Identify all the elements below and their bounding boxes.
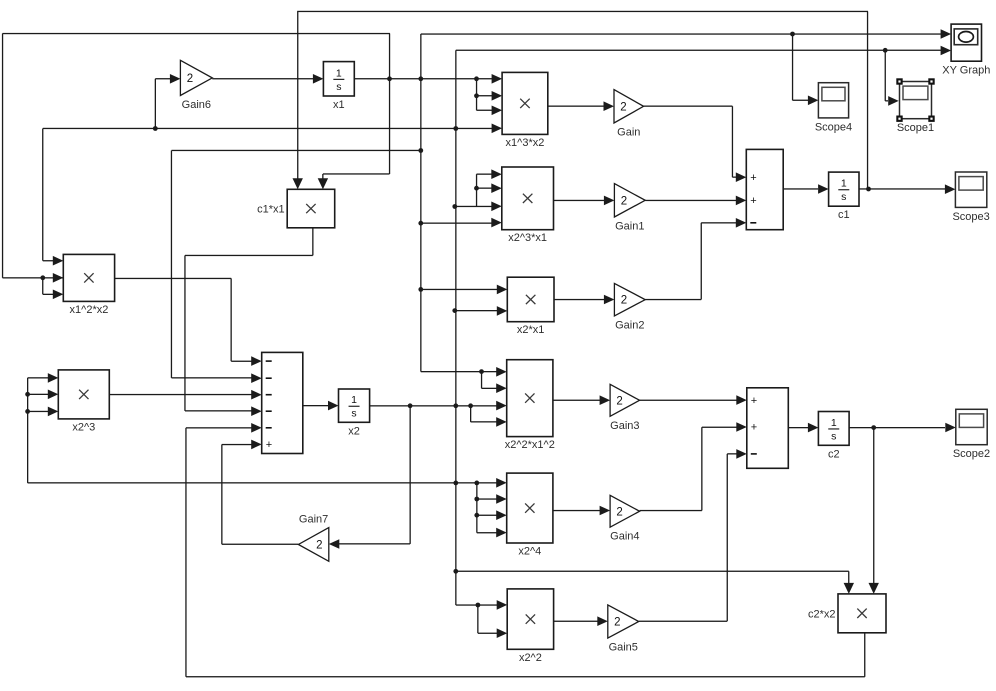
svg-text:Gain2: Gain2	[615, 319, 644, 331]
svg-text:s: s	[336, 81, 341, 93]
svg-text:Gain3: Gain3	[610, 420, 639, 432]
svg-text:2: 2	[187, 73, 193, 85]
svg-text:x2^2: x2^2	[519, 652, 542, 664]
svg-text:+: +	[750, 195, 756, 207]
svg-text:c2: c2	[828, 448, 840, 460]
svg-text:1: 1	[841, 178, 847, 190]
svg-text:x2*x1: x2*x1	[517, 324, 545, 336]
svg-text:x2: x2	[348, 425, 360, 437]
svg-text:s: s	[351, 408, 356, 420]
svg-text:x2^2*x1^2: x2^2*x1^2	[505, 439, 555, 451]
svg-text:Scope3: Scope3	[952, 211, 989, 223]
svg-text:2: 2	[621, 195, 627, 207]
svg-text:x2^3: x2^3	[72, 421, 95, 433]
svg-text:Scope4: Scope4	[815, 121, 852, 133]
svg-text:+: +	[266, 439, 272, 451]
svg-text:1: 1	[336, 67, 342, 79]
svg-text:c2*x2: c2*x2	[808, 608, 836, 620]
svg-text:Gain: Gain	[617, 127, 640, 139]
svg-text:XY Graph: XY Graph	[942, 65, 990, 77]
svg-text:1: 1	[351, 394, 357, 406]
svg-text:2: 2	[616, 395, 622, 407]
svg-text:2: 2	[616, 506, 622, 518]
svg-text:x2^3*x1: x2^3*x1	[508, 232, 547, 244]
svg-text:2: 2	[316, 539, 322, 551]
svg-text:+: +	[750, 172, 756, 184]
svg-text:Gain7: Gain7	[299, 514, 328, 526]
svg-text:Gain4: Gain4	[610, 531, 639, 543]
svg-text:Gain1: Gain1	[615, 221, 644, 233]
svg-text:c1*x1: c1*x1	[257, 204, 285, 216]
svg-text:2: 2	[614, 617, 620, 629]
svg-text:Scope2: Scope2	[953, 448, 990, 460]
svg-text:x1: x1	[333, 99, 345, 111]
svg-text:s: s	[841, 191, 846, 203]
svg-text:1: 1	[831, 417, 837, 429]
svg-text:2: 2	[620, 101, 626, 113]
svg-text:x2^4: x2^4	[518, 546, 541, 558]
svg-text:+: +	[751, 395, 757, 407]
svg-text:Gain6: Gain6	[182, 99, 211, 111]
svg-text:x1^2*x2: x1^2*x2	[70, 304, 109, 316]
svg-text:Gain5: Gain5	[609, 642, 638, 654]
svg-text:x1^3*x2: x1^3*x2	[506, 137, 545, 149]
svg-text:s: s	[831, 430, 836, 442]
svg-text:+: +	[751, 422, 757, 434]
svg-text:Scope1: Scope1	[897, 122, 934, 134]
svg-text:2: 2	[621, 295, 627, 307]
svg-text:c1: c1	[838, 209, 850, 221]
